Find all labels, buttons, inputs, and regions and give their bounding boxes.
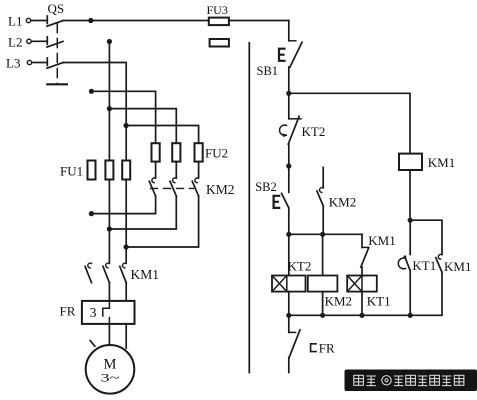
node junction L1 drop <box>88 18 93 23</box>
thermal relay FR box <box>82 301 135 324</box>
svg-text:FU3: FU3 <box>207 3 228 17</box>
thermal relay FR heater jog <box>103 301 110 322</box>
wire L1 lead-in <box>31 20 46 22</box>
contactor coil KM2 <box>308 276 338 292</box>
contactor KM1 main contact 1 <box>85 263 91 282</box>
node junction bottom rail 4 <box>408 313 413 318</box>
wire KM1-2 to FR box <box>108 283 110 301</box>
wire column C FU1 to KM1 <box>125 180 127 263</box>
svg-text:KM2: KM2 <box>329 195 356 210</box>
wire KT2 to node <box>288 144 290 166</box>
thermal relay FR heater element glyph <box>90 305 97 320</box>
contactor KM2 main contact 3 <box>192 178 198 196</box>
wire KT2 coil to bottom rail <box>288 292 290 316</box>
svg-text:KT1: KT1 <box>412 258 436 273</box>
thermal relay FR contact NC <box>289 315 316 372</box>
contactor KM1 main contact 3 <box>120 263 126 282</box>
svg-text:L2: L2 <box>8 34 22 49</box>
wire L1 to FU3 <box>63 20 209 22</box>
node junction KM2-2 return <box>107 226 112 231</box>
svg-text:KT1: KT1 <box>367 294 391 309</box>
node junction bottom rail 2 <box>320 313 325 318</box>
contactor KM2 main contact 2 <box>170 178 176 196</box>
fuse FU2 element 3 <box>195 143 203 161</box>
svg-text:SB2: SB2 <box>255 180 277 194</box>
svg-text:3~: 3~ <box>101 371 121 385</box>
control circuit left rail <box>248 43 250 373</box>
wire branch row 3 to FU2-3 <box>126 126 199 144</box>
fuse FU1 element 3 <box>122 161 130 180</box>
wire KM2 coil top <box>322 234 324 275</box>
node junction bottom rail 1 <box>286 313 291 318</box>
wire KM2-2 return <box>109 196 176 229</box>
wire FU2-3 to KM2 contact 3 <box>198 162 200 178</box>
watermark bar <box>345 370 477 392</box>
wire branch row 2 to FU2-2 <box>109 109 176 144</box>
fuse FU1 element 2 <box>105 161 113 180</box>
svg-text:QS: QS <box>48 1 65 16</box>
node L3 terminal <box>27 60 31 64</box>
watermark glyphs <box>354 375 464 385</box>
node L2 terminal <box>27 39 31 43</box>
wire motor entry diagonal <box>90 341 95 347</box>
node junction KM2 coil top <box>320 232 325 237</box>
pushbutton SB2 NO <box>274 166 289 208</box>
node junction SB1 bottom <box>286 91 291 96</box>
wire FU2-1 to KM2 contact 1 <box>155 162 157 178</box>
contactor KM1 main contact 2 <box>103 263 109 282</box>
switch QS handle bar <box>47 83 67 85</box>
wire branch row 1 to FU2-1 <box>91 91 155 143</box>
wire L3 lead-in <box>32 62 46 64</box>
svg-text:FR: FR <box>60 304 76 319</box>
fuse FU1 element 1 <box>88 161 96 180</box>
time relay contact KT2 NC delayed <box>280 93 301 144</box>
wire L3 to column <box>63 63 126 161</box>
node junction KM2-1 return <box>89 211 94 216</box>
wire KT1 coil bottom <box>361 292 363 316</box>
node L1 terminal <box>26 18 30 22</box>
wire control main drop <box>288 21 290 41</box>
svg-text:FU2: FU2 <box>205 146 228 161</box>
node junction branch row 3 <box>124 123 129 128</box>
svg-text:FU1: FU1 <box>60 164 83 179</box>
wire KM2-3 return <box>126 196 199 247</box>
contactor KM2 aux contact NO <box>317 167 323 234</box>
wire KM2 coil bottom <box>322 292 324 316</box>
wire FU2-2 to KM2 contact 2 <box>175 162 177 178</box>
node junction SB2 bottom <box>286 232 291 237</box>
wire KM1 coil to node <box>409 170 411 220</box>
wire SB2 to rail <box>288 208 290 234</box>
time relay coil KT1 <box>347 276 377 292</box>
wire FR box to motor column C <box>125 324 127 348</box>
node junction KT1 branch top <box>408 218 413 223</box>
svg-text:L3: L3 <box>6 56 20 71</box>
time relay coil KT2 <box>272 276 306 292</box>
svg-text:SB1: SB1 <box>257 64 279 78</box>
node junction branch row 1 <box>89 89 94 94</box>
fuse FU2 element 2 <box>172 143 180 161</box>
time relay contact KT1 NO delayed <box>398 220 410 315</box>
contactor KM2 main contact 1 <box>149 178 155 196</box>
svg-text:KT2: KT2 <box>302 124 326 139</box>
wire FR box to motor column B <box>108 324 110 345</box>
wire KM1-3 to FR box <box>125 283 127 301</box>
wire bottom rail <box>289 314 410 316</box>
wire FU3 to control corner <box>229 20 289 22</box>
pushbutton SB1 NC <box>279 41 302 67</box>
switch QS linkage dashed <box>56 24 58 85</box>
contactor coil KM1 <box>399 154 422 170</box>
svg-text:KM1: KM1 <box>428 155 455 170</box>
svg-text:KM2: KM2 <box>206 182 235 197</box>
node junction KM2-3 return <box>124 244 129 249</box>
node junction branch row 2 <box>107 106 112 111</box>
svg-text:FR: FR <box>319 341 335 356</box>
switch QS pole 3 <box>47 58 63 68</box>
svg-text:KM1: KM1 <box>368 233 395 248</box>
wire column B FU1 to KM1 <box>108 180 110 263</box>
wire L2 column <box>108 42 110 161</box>
motor M circle <box>86 345 135 394</box>
svg-text:KM1: KM1 <box>444 259 471 274</box>
wire node to KM1 coil branch <box>289 93 410 153</box>
wire coil top rail <box>289 233 362 235</box>
fuse FU3 <box>209 18 229 26</box>
svg-text:KM2: KM2 <box>325 294 352 309</box>
node junction L2 drop <box>107 39 112 44</box>
contactor KM2 linkage dashed <box>151 187 194 189</box>
wire SB2 node to KT2 coil <box>288 234 290 275</box>
wire KM2-1 return <box>91 196 155 214</box>
node junction above SB2 <box>286 163 291 168</box>
fuse FU3 second element <box>210 39 229 47</box>
contactor KM1 aux contact NO right <box>410 220 442 315</box>
svg-text:L1: L1 <box>8 14 22 29</box>
switch QS pole 2 <box>47 37 63 47</box>
svg-text:3: 3 <box>90 305 97 320</box>
node junction bottom rail 3 <box>359 313 364 318</box>
svg-text:KT2: KT2 <box>288 259 312 274</box>
fuse FU2 element 1 <box>152 143 160 161</box>
wire L2 lead-in <box>32 40 47 42</box>
svg-text:KM1: KM1 <box>131 267 160 282</box>
wire SB1 to node <box>288 67 290 93</box>
switch QS pole 1 <box>47 16 63 26</box>
contactor KM1 NC aux contact <box>361 234 369 275</box>
